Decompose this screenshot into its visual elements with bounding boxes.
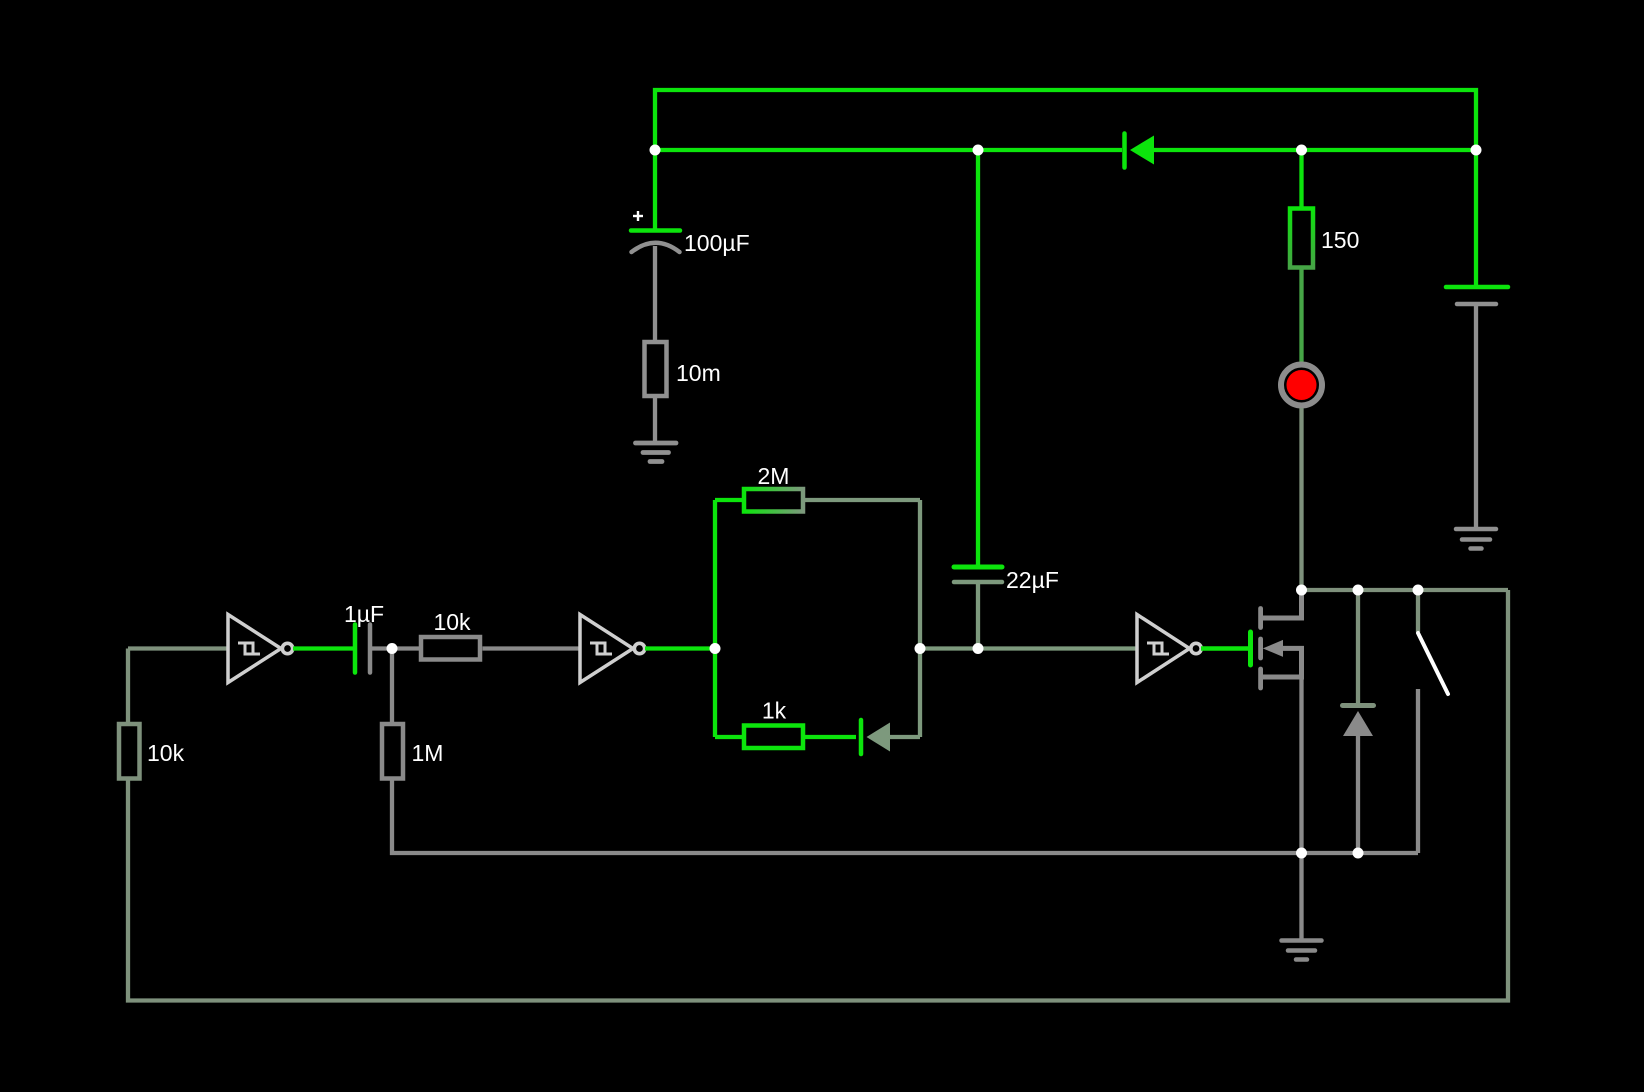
- resistor R4 2M: [744, 463, 803, 512]
- capacitor C2 22uF: [954, 567, 1059, 593]
- wire diode D3 bottom: [1356, 736, 1360, 853]
- diode D2: [861, 720, 890, 754]
- inverter U2: [580, 615, 645, 683]
- wire input to inverter U1: [128, 646, 228, 650]
- wire source node rail: [392, 778, 1418, 853]
- transistor Q1 channel: [1258, 609, 1263, 689]
- svg-text:1M: 1M: [412, 740, 444, 766]
- wire R3 to inverter U2: [483, 646, 581, 650]
- svg-text:22µF: 22µF: [1006, 567, 1059, 593]
- wire 1k to diode D2: [803, 735, 856, 739]
- svg-text:150: 150: [1321, 227, 1359, 253]
- node H 22uF bottom junction: [973, 643, 984, 654]
- svg-text:100µF: 100µF: [684, 230, 750, 256]
- wire to battery V1: [1474, 150, 1478, 287]
- wire U2 out to loop: [645, 646, 715, 650]
- node K switch top junction: [1413, 585, 1424, 596]
- resistor 150: [1290, 209, 1359, 268]
- wire to capacitor C1: [653, 150, 657, 231]
- node D battery top junction: [1471, 145, 1482, 156]
- node E 1uF-10k-1M junction: [387, 643, 398, 654]
- wire drain rail: [1302, 588, 1509, 592]
- wire diode D3 top: [1356, 590, 1360, 703]
- LED D4: [1281, 365, 1322, 406]
- ground G2: [1456, 529, 1496, 549]
- wire to capacitor C2: [976, 150, 980, 567]
- wire LED to drain node: [1299, 408, 1303, 590]
- svg-text:2M: 2M: [758, 463, 790, 489]
- resistor R2 1M: [382, 724, 443, 779]
- diode D1: [1125, 134, 1155, 168]
- wire U3 out to gate: [1201, 646, 1248, 651]
- wire left vertical upper: [126, 649, 130, 725]
- wire loop top left: [715, 498, 742, 502]
- svg-text:1µF: 1µF: [344, 601, 384, 627]
- wire resistor 150 to LED: [1299, 268, 1303, 364]
- svg-text:1k: 1k: [762, 698, 787, 724]
- wire 1M top: [390, 649, 394, 725]
- node J diode top junction: [1353, 585, 1364, 596]
- wire C2 to node row: [976, 582, 980, 648]
- wire right edge: [128, 590, 1508, 1001]
- node C 150 top junction: [1296, 145, 1307, 156]
- diode D3: [1343, 706, 1374, 737]
- wire R 10m to ground: [653, 396, 657, 443]
- wire switch top: [1416, 590, 1420, 632]
- wire C1 to R 10m: [653, 246, 657, 342]
- svg-text:10m: 10m: [676, 360, 721, 386]
- wire node row to inverter U3: [920, 646, 1137, 650]
- inverter U1: [228, 615, 293, 683]
- node F loop left junction: [710, 643, 721, 654]
- resistor R3 10k: [421, 609, 480, 660]
- wire top rail: [655, 90, 1476, 150]
- wire loop left vertical: [713, 500, 717, 737]
- battery V1: [1446, 287, 1508, 304]
- node L source rail junction: [1296, 848, 1307, 859]
- node B 22uF top junction: [973, 145, 984, 156]
- wire source to ground: [1299, 679, 1303, 939]
- node I drain junction: [1296, 585, 1307, 596]
- svg-text:10k: 10k: [433, 609, 471, 635]
- node A top-left junction: [650, 145, 661, 156]
- resistor R1 10k: [119, 724, 185, 779]
- wire second rail right segment: [1154, 148, 1476, 152]
- wire C3 to resistor R3: [370, 646, 419, 650]
- wire second rail left segment: [655, 148, 1122, 152]
- node M diode bottom junction: [1353, 848, 1364, 859]
- wire loop right vertical: [918, 500, 922, 737]
- wire 2M to loop right: [803, 498, 920, 502]
- resistor R5 1k: [744, 698, 803, 749]
- resistor 10m: [645, 342, 721, 396]
- wire battery to ground: [1474, 304, 1478, 528]
- wire loop bottom left: [715, 735, 743, 739]
- switch SW1 blade: [1418, 633, 1448, 694]
- capacitor C1 100uF: [631, 211, 750, 256]
- transistor Q1 gate bar: [1248, 632, 1253, 665]
- wire U1 out to C3: [293, 646, 353, 650]
- wire D2 to loop right: [890, 735, 920, 739]
- wire to resistor 150: [1299, 150, 1303, 209]
- transistor Q1 drain lead: [1261, 590, 1302, 618]
- capacitor C3 1uF: [344, 601, 384, 673]
- node G loop right junction: [915, 643, 926, 654]
- transistor Q1 arrow: [1263, 640, 1283, 657]
- ground G1: [636, 443, 677, 462]
- ground G3: [1282, 941, 1322, 960]
- wire switch bottom: [1416, 689, 1420, 853]
- svg-text:10k: 10k: [147, 740, 185, 766]
- transistor Q1 source lead: [1261, 648, 1302, 677]
- inverter U3: [1137, 615, 1201, 683]
